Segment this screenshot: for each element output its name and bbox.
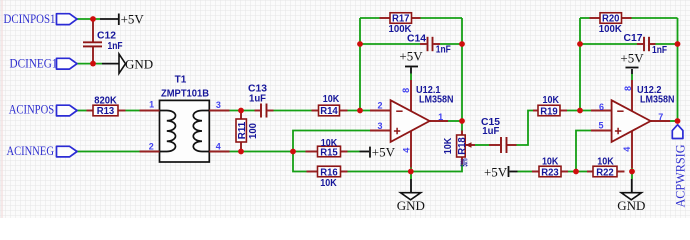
svg-text:+5V: +5V: [121, 12, 145, 27]
svg-text:2: 2: [149, 142, 154, 152]
svg-text:8: 8: [401, 88, 411, 93]
svg-text:+5V: +5V: [484, 164, 508, 179]
svg-text:10K: 10K: [443, 137, 454, 154]
svg-text:4: 4: [401, 148, 411, 153]
svg-text:GND: GND: [125, 56, 153, 71]
svg-text:ACINNEG: ACINNEG: [7, 144, 55, 158]
svg-text:10K: 10K: [543, 95, 560, 106]
svg-text:C17: C17: [624, 33, 643, 44]
svg-text:R22: R22: [596, 168, 614, 179]
svg-text:5: 5: [598, 121, 603, 131]
svg-text:R15: R15: [320, 148, 338, 159]
svg-text:R23: R23: [541, 168, 559, 179]
svg-text:1nF: 1nF: [652, 45, 667, 56]
svg-text:2: 2: [377, 101, 382, 111]
svg-text:10K: 10K: [542, 157, 559, 168]
svg-text:+5V: +5V: [399, 48, 423, 63]
svg-text:820K: 820K: [94, 96, 117, 107]
svg-text:ACPWRSIG: ACPWRSIG: [673, 144, 687, 207]
svg-text:T1: T1: [175, 74, 187, 85]
svg-text:R11: R11: [237, 121, 248, 139]
svg-text:DCINEG1: DCINEG1: [10, 56, 58, 70]
svg-text:LM358N: LM358N: [640, 95, 675, 106]
svg-text:DCINPOS1: DCINPOS1: [4, 12, 56, 26]
svg-text:100K: 100K: [599, 24, 623, 35]
svg-text:4: 4: [622, 147, 632, 152]
svg-text:7: 7: [658, 112, 663, 122]
svg-text:100: 100: [248, 123, 259, 139]
svg-text:R13: R13: [97, 106, 115, 117]
svg-text:10K: 10K: [323, 94, 340, 105]
svg-text:R18: R18: [457, 137, 468, 155]
svg-text:GND: GND: [617, 198, 645, 213]
svg-text:4: 4: [216, 142, 221, 152]
svg-text:ACINPOS: ACINPOS: [9, 103, 55, 117]
svg-text:1nF: 1nF: [436, 45, 451, 56]
svg-text:1uF: 1uF: [482, 126, 499, 137]
svg-text:3: 3: [377, 121, 382, 131]
svg-text:50%: 50%: [460, 158, 471, 166]
svg-text:3: 3: [216, 100, 221, 110]
svg-text:GND: GND: [397, 198, 425, 213]
svg-text:100K: 100K: [389, 24, 413, 35]
svg-text:1nF: 1nF: [108, 41, 123, 52]
svg-text:R14: R14: [320, 106, 338, 117]
svg-text:1: 1: [149, 100, 154, 110]
svg-text:10K: 10K: [320, 178, 337, 189]
svg-text:C14: C14: [407, 33, 426, 44]
svg-text:1: 1: [438, 112, 443, 122]
svg-text:R19: R19: [540, 106, 558, 117]
svg-text:1uF: 1uF: [249, 93, 266, 104]
svg-text:+5V: +5V: [620, 51, 644, 66]
svg-text:8: 8: [623, 86, 633, 91]
svg-text:ZMPT101B: ZMPT101B: [161, 88, 209, 99]
svg-text:LM358N: LM358N: [419, 95, 454, 106]
svg-text:10K: 10K: [597, 157, 614, 168]
svg-text:+5V: +5V: [372, 144, 396, 159]
svg-text:6: 6: [599, 102, 604, 112]
